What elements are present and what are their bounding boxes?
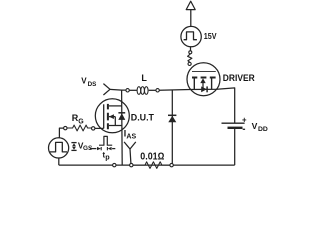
svg-text:V: V <box>252 121 258 131</box>
label VDD <box>252 121 268 133</box>
svg-text:V: V <box>81 77 87 86</box>
label VGS <box>78 141 93 152</box>
label RG <box>72 113 84 125</box>
label L <box>141 73 147 83</box>
drain lead <box>193 79 195 90</box>
wire top rail inductor to driver to battery corner <box>159 88 234 123</box>
battery VDD <box>222 123 245 165</box>
gate bar <box>192 71 216 73</box>
channel bar segments <box>192 77 216 79</box>
wire top rail VDS to inductor <box>110 88 126 91</box>
label 15V <box>204 31 217 41</box>
svg-text:DS: DS <box>88 81 97 88</box>
node source terminal <box>113 163 116 166</box>
label battery plus <box>242 116 247 125</box>
svg-text:DRIVER: DRIVER <box>223 73 255 84</box>
label VDS <box>81 77 96 88</box>
resistor RG <box>64 125 104 131</box>
label battery minus <box>243 128 245 130</box>
label IAS <box>124 129 137 141</box>
body diode triangle <box>201 86 207 92</box>
VGS measure symbol <box>71 143 76 151</box>
body diode bar <box>206 86 208 92</box>
tp pulse waveform <box>90 136 115 150</box>
label D.U.T <box>131 112 154 123</box>
svg-text:L: L <box>141 73 147 83</box>
gate bar <box>103 104 105 128</box>
15V pulse source V2 <box>181 26 201 46</box>
body arrow <box>109 116 115 118</box>
svg-text:15V: 15V <box>204 31 217 41</box>
mosfet U1 D.U.T <box>95 99 129 133</box>
pulse generator V1 <box>49 128 69 165</box>
VDS probe arrow <box>103 84 110 95</box>
supply arrow <box>186 1 195 26</box>
resistor RS 0.01ohm <box>130 162 174 169</box>
svg-text:0.01Ω: 0.01Ω <box>140 152 164 163</box>
body diode bar <box>118 112 125 114</box>
inductor L <box>126 87 159 95</box>
wire gen bottom <box>58 158 60 165</box>
bottom rail wire <box>59 164 235 166</box>
body to source <box>114 117 116 126</box>
svg-text:+: + <box>242 116 247 125</box>
body arrow <box>200 78 205 83</box>
label 0.01ohm <box>140 152 164 163</box>
svg-text:p: p <box>105 153 110 162</box>
label tp <box>103 151 111 162</box>
source lead <box>211 79 213 90</box>
diode D1 clamp <box>168 90 176 163</box>
body diode triangle <box>118 113 125 120</box>
source lead <box>109 125 122 127</box>
channel bar segments <box>107 104 109 129</box>
mosfet U2 DRIVER <box>187 63 220 96</box>
svg-text:AS: AS <box>126 133 136 140</box>
svg-text:G: G <box>78 118 84 125</box>
wire DUT drain-source vertical <box>121 90 124 165</box>
label DRIVER <box>223 73 255 84</box>
IAS probe <box>124 142 136 164</box>
wire gen top to RG <box>59 128 63 138</box>
drain lead <box>109 105 122 107</box>
wire 15V to gate resistor <box>190 47 192 51</box>
svg-text:DD: DD <box>258 126 268 133</box>
driver gate zigzag resistor <box>188 51 192 66</box>
svg-text:D.U.T: D.U.T <box>131 112 154 123</box>
